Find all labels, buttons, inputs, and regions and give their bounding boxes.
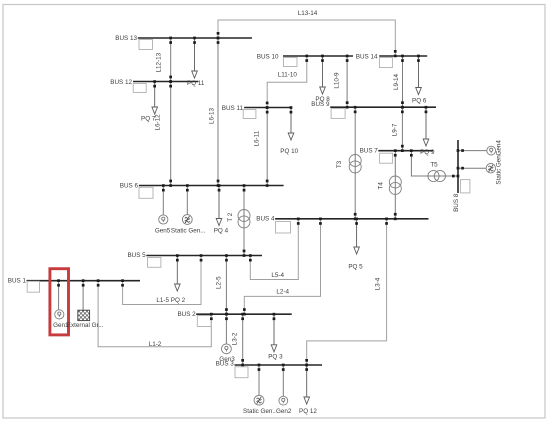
wire L6-11 <box>266 108 268 186</box>
bus box BUS 13 <box>139 40 153 50</box>
bus label BUS 10 <box>257 54 279 61</box>
line label L9-14 <box>393 73 400 90</box>
svg-text:BUS 12: BUS 12 <box>110 79 132 86</box>
line label L1-2 <box>149 341 162 348</box>
wire Gen2 lead <box>282 365 284 396</box>
generator Gen3 <box>222 344 232 354</box>
bus label BUS 3 <box>216 360 235 367</box>
svg-text:L5-4: L5-4 <box>271 272 284 279</box>
bus box BUS 3 <box>235 367 248 378</box>
wire T3 branch <box>354 107 356 219</box>
line label L2-4 <box>276 289 289 296</box>
wire L2-5 <box>225 256 227 315</box>
wire SGen3 lead <box>258 365 260 395</box>
bus label BUS 13 <box>115 35 137 42</box>
line label External Gr... <box>67 322 104 329</box>
line label L10-9 <box>334 72 341 89</box>
bus BUS 8 (vertical) <box>457 140 459 193</box>
load PQ 3 arrow <box>271 314 277 352</box>
bus box BUS 10 <box>284 58 298 67</box>
bus BUS 1 <box>27 280 141 282</box>
svg-text:Static Gen..: Static Gen.. <box>243 408 276 415</box>
bus box BUS 11 <box>243 110 256 119</box>
svg-text:L6-11: L6-11 <box>254 130 261 146</box>
svg-text:BUS 4: BUS 4 <box>256 216 275 223</box>
svg-text:L9-14: L9-14 <box>393 73 400 90</box>
bus BUS 3 <box>235 364 323 366</box>
line label PQ 7 <box>141 116 156 123</box>
wire L9-7 <box>401 107 403 151</box>
line label L2-5 <box>215 276 222 289</box>
line label PQ 8 <box>315 96 330 103</box>
bus box BUS 1 <box>27 281 39 292</box>
line label L6-11 <box>254 130 261 146</box>
svg-text:PQ 4: PQ 4 <box>214 228 229 235</box>
line label Gen4 <box>495 140 502 156</box>
line label T 2 <box>227 212 234 221</box>
bus BUS 11 <box>244 107 292 109</box>
svg-text:BUS 5: BUS 5 <box>127 252 146 259</box>
bus label BUS 11 <box>222 105 244 112</box>
line label Static Gen.. <box>243 408 276 415</box>
bus label BUS 6 <box>120 182 139 189</box>
line label PQ 4 <box>214 228 229 235</box>
generator Gen1 <box>55 310 64 319</box>
svg-text:PQ 10: PQ 10 <box>280 148 298 155</box>
bus box BUS 8 <box>460 180 470 193</box>
line label L5-4 <box>271 272 284 279</box>
svg-text:PQ 7: PQ 7 <box>141 116 156 123</box>
svg-text:BUS 2: BUS 2 <box>177 311 196 318</box>
line label L6-13 <box>209 107 216 124</box>
wire Gen3 lead <box>225 314 227 344</box>
bus BUS 7 <box>378 150 433 152</box>
wire L1-5 <box>123 256 201 305</box>
svg-text:L1-5 PQ 2: L1-5 PQ 2 <box>156 297 185 304</box>
svg-text:BUS 7: BUS 7 <box>360 148 379 155</box>
bus box BUS 5 <box>148 258 161 268</box>
svg-text:PQ 12: PQ 12 <box>299 408 317 415</box>
generator Gen5 <box>159 215 168 224</box>
svg-text:Gen3: Gen3 <box>219 356 235 363</box>
load PQ 11 arrow <box>192 38 198 78</box>
line label PQ 9 <box>420 149 435 156</box>
bus box BUS 6 <box>139 187 153 198</box>
load PQ 5 arrow <box>354 219 360 254</box>
load PQ 6 arrow <box>416 56 422 95</box>
svg-text:L2-4: L2-4 <box>276 289 289 296</box>
svg-text:T 2: T 2 <box>227 212 234 221</box>
svg-text:Gen5: Gen5 <box>155 228 171 235</box>
line label Gen3 <box>219 356 235 363</box>
load PQ 2 arrow <box>175 256 181 292</box>
svg-text:PQ 8: PQ 8 <box>315 96 330 103</box>
svg-text:BUS 1: BUS 1 <box>8 277 27 284</box>
svg-text:L6-13: L6-13 <box>209 107 216 124</box>
transformer T2 <box>238 210 250 228</box>
bus BUS 9 <box>330 106 436 108</box>
transformer T4 <box>389 176 401 194</box>
bus BUS 4 <box>275 218 428 220</box>
svg-text:BUS 13: BUS 13 <box>115 35 137 42</box>
bus BUS 13 <box>138 37 252 39</box>
svg-text:T3: T3 <box>336 160 343 168</box>
wire L6-12 <box>170 82 172 186</box>
static generator Static Gen (BUS 8) <box>486 164 495 173</box>
line label PQ 5 <box>348 264 363 271</box>
static generator Static Gen (BUS 3) <box>254 395 264 405</box>
svg-text:Static Gen...: Static Gen... <box>495 150 502 185</box>
line label Static Gen... <box>495 150 502 185</box>
line label L13-14 <box>298 10 318 17</box>
svg-text:Gen2: Gen2 <box>276 408 292 415</box>
svg-text:PQ 11: PQ 11 <box>187 80 205 87</box>
junction squares on buses <box>57 32 464 371</box>
svg-text:BUS 6: BUS 6 <box>120 182 139 189</box>
wire L12-13 <box>170 38 172 82</box>
line label PQ 10 <box>280 148 298 155</box>
bus BUS 5 <box>146 255 262 257</box>
external grid <box>70 310 104 320</box>
line label Gen1 <box>53 322 69 329</box>
svg-text:L3-2: L3-2 <box>231 332 238 345</box>
bus label BUS 2 <box>177 311 196 318</box>
wire T5 branch <box>411 151 458 176</box>
wire T2 branch <box>243 186 245 256</box>
bus label BUS 1 <box>8 277 27 284</box>
wire Gen5 lead <box>162 186 164 216</box>
line label L3-2 <box>231 332 238 345</box>
line label L3-4 <box>374 277 381 290</box>
wire L6-13 <box>217 38 219 186</box>
line label Static Gen... <box>171 228 206 235</box>
bus BUS 2 <box>196 313 292 315</box>
line label T5 <box>430 162 438 169</box>
bus label BUS 8 (rotated) <box>453 193 460 212</box>
line label L6-12 <box>155 114 162 131</box>
transformer T5 <box>428 170 446 181</box>
svg-text:L9-7: L9-7 <box>392 123 399 136</box>
bus label BUS 5 <box>127 252 146 259</box>
line label L9-7 <box>392 123 399 136</box>
wire L3-4 <box>307 219 387 365</box>
bus box BUS 14 <box>379 58 392 68</box>
generator Gen2 <box>279 396 288 405</box>
wire L10-9 <box>346 56 348 107</box>
svg-text:PQ 6: PQ 6 <box>412 98 427 105</box>
static generator Static Gen (BUS 6) <box>182 215 192 225</box>
line label PQ 6 <box>412 98 427 105</box>
svg-text:L13-14: L13-14 <box>298 10 318 17</box>
svg-text:PQ 5: PQ 5 <box>348 264 363 271</box>
bus BUS 6 <box>139 185 284 187</box>
svg-text:L6-12: L6-12 <box>155 114 162 131</box>
wire L2-4 <box>244 219 320 314</box>
svg-text:T5: T5 <box>430 162 438 169</box>
bus BUS 14 <box>379 55 427 57</box>
svg-text:L12-13: L12-13 <box>156 52 163 72</box>
line label PQ 12 <box>299 408 317 415</box>
svg-text:BUS 8: BUS 8 <box>453 193 460 212</box>
generator Gen4 <box>487 146 496 155</box>
wire Gen1 lead <box>58 281 60 310</box>
bus box BUS 9 <box>331 109 345 119</box>
wire L9-14 <box>402 56 404 107</box>
svg-text:BUS 11: BUS 11 <box>222 105 244 112</box>
load PQ 9 arrow <box>423 107 429 146</box>
wire L11-10 <box>267 56 307 108</box>
line label L12-13 <box>156 52 163 72</box>
svg-text:L10-9: L10-9 <box>334 72 341 89</box>
bus box BUS 12 <box>133 84 146 93</box>
svg-text:PQ 9: PQ 9 <box>420 149 435 156</box>
wire L5-4 <box>250 219 298 280</box>
wire Gen4 lead <box>458 150 487 152</box>
bus box BUS 7 <box>380 153 393 163</box>
bus BUS 10 <box>283 55 353 57</box>
wire L1-2 <box>98 281 211 347</box>
bus BUS 12 <box>133 81 198 83</box>
line label PQ 3 <box>268 354 283 361</box>
svg-text:BUS 10: BUS 10 <box>257 54 279 61</box>
bus box BUS 2 <box>197 316 211 327</box>
wire SGen6 lead <box>186 186 188 215</box>
svg-text:L11-10: L11-10 <box>278 71 298 78</box>
wire L3-2 <box>242 314 244 365</box>
wire T4 branch <box>394 151 396 219</box>
wire External Grid lead <box>82 281 84 310</box>
wire SGen8 lead <box>458 167 486 169</box>
load PQ 4 arrow <box>216 186 222 226</box>
svg-text:BUS 14: BUS 14 <box>356 54 378 61</box>
svg-text:L2-5: L2-5 <box>215 276 222 289</box>
svg-text:External Gr...: External Gr... <box>67 322 104 329</box>
svg-text:Static Gen...: Static Gen... <box>171 228 206 235</box>
line label T4 <box>377 182 384 190</box>
svg-text:L3-4: L3-4 <box>374 277 381 290</box>
bus label BUS 14 <box>356 54 378 61</box>
svg-text:PQ 3: PQ 3 <box>268 354 283 361</box>
load PQ 12 arrow <box>304 365 310 404</box>
line label PQ 11 <box>187 80 205 87</box>
wire L13-14 <box>218 20 395 56</box>
line label L1-5 PQ 2 <box>156 297 185 304</box>
line label L11-10 <box>278 71 298 78</box>
bus label BUS 7 <box>360 148 379 155</box>
load PQ 8 arrow <box>320 56 326 94</box>
svg-text:L1-2: L1-2 <box>149 341 162 348</box>
bus label BUS 4 <box>256 216 275 223</box>
line label Gen5 <box>155 228 171 235</box>
bus label BUS 12 <box>110 79 132 86</box>
bus box BUS 4 <box>276 222 291 234</box>
load PQ 7 arrow <box>152 82 158 115</box>
svg-text:T4: T4 <box>377 182 384 190</box>
bus label BUS 9 <box>311 101 330 108</box>
line label T3 <box>336 160 343 168</box>
line label Gen2 <box>276 408 292 415</box>
load PQ 10 arrow <box>288 108 294 141</box>
transformer T3 <box>349 155 361 173</box>
red highlight rectangle around Gen1 <box>50 269 69 335</box>
